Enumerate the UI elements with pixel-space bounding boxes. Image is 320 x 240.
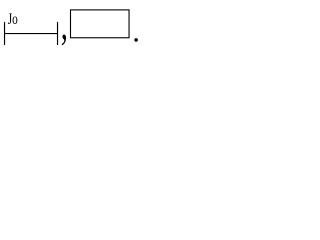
svg-text:.: . (132, 13, 140, 48)
right delimiter bar (57, 22, 58, 45)
svg-text:Jo: Jo (8, 10, 18, 27)
box (empty rectangle) (71, 10, 130, 38)
comma (61, 1, 68, 48)
label Jo (8, 10, 18, 27)
svg-text:,: , (61, 1, 68, 48)
wire: horizontal line (4, 33, 58, 34)
left delimiter bar (4, 22, 5, 45)
